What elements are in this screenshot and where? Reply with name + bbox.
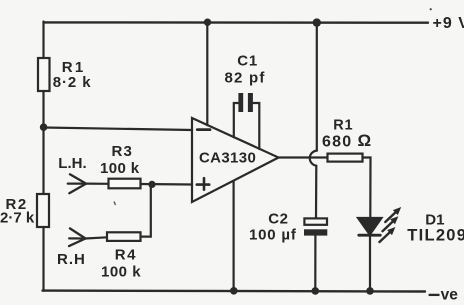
svg-text:C1: C1 <box>237 53 258 70</box>
capacitor C2 bottom plate <box>304 229 327 235</box>
label 2.7k value <box>0 210 35 227</box>
node: bottom rail junction at LED <box>366 287 374 295</box>
svg-text:ve: ve <box>441 287 459 304</box>
label C1 value 82pf <box>225 69 266 86</box>
label TIL209 <box>407 227 464 245</box>
capacitor C2 top plate <box>304 218 327 224</box>
wire: R4 right lead up to junction <box>141 185 151 237</box>
label C1 <box>237 53 258 70</box>
svg-text:8·2 k: 8·2 k <box>53 74 92 91</box>
input arrow L.H. <box>68 174 86 193</box>
LED light arrow 3 <box>380 227 396 242</box>
svg-text:CA3130: CA3130 <box>199 150 256 167</box>
svg-text:2·7 k: 2·7 k <box>0 210 35 227</box>
label L.H. input <box>58 155 86 172</box>
node: inverting-input junction on left branch <box>40 123 48 131</box>
resistor R2 2.7k body <box>37 194 49 227</box>
op-amp non-inverting input plus symbol <box>197 178 209 189</box>
wire: +9V top rail <box>44 21 429 24</box>
label R4 <box>115 247 137 264</box>
wire: decoupling branch from top rail down to hop <box>316 23 318 151</box>
wire: hop to C2 top plate <box>315 166 317 219</box>
wire: R2 bottom to bottom rail <box>42 227 44 291</box>
label R1 680 <box>333 118 353 134</box>
label R4 value 100k <box>101 263 141 280</box>
svg-text:+9 V: +9 V <box>433 15 464 32</box>
label D1 <box>425 212 444 229</box>
svg-text:100 k: 100 k <box>100 160 140 177</box>
label op-amp CA3130 <box>199 150 256 167</box>
svg-text:100 k: 100 k <box>101 263 141 280</box>
wire: R.H arrow to R4 <box>86 237 108 238</box>
label C2 value 100uf <box>249 226 297 243</box>
wire: R1 bottom to R2 top <box>42 91 44 195</box>
label 8.2k value <box>53 74 92 91</box>
capacitor C1 plates <box>238 93 253 112</box>
svg-text:TIL209: TIL209 <box>407 227 464 245</box>
svg-text:Ω: Ω <box>358 131 372 150</box>
svg-text:R3: R3 <box>112 143 134 160</box>
label R1 <box>62 59 86 76</box>
node: bottom rail junction at V- pin <box>230 287 238 295</box>
wire: V- pin from op-amp bottom edge to bottom rail <box>233 182 235 291</box>
resistor R1 680 ohm body <box>328 154 363 162</box>
label C2 <box>268 211 288 228</box>
node: bottom rail junction at C2 <box>312 287 320 295</box>
node: top rail junction at V+ pin <box>204 19 211 26</box>
node: top rail junction at decoupling branch <box>313 18 321 26</box>
label R3 <box>112 143 134 160</box>
LED light arrow 2 <box>383 216 399 231</box>
wire: LED cathode to bottom rail <box>369 236 371 291</box>
op-amp inverting input minus symbol <box>197 128 210 131</box>
speck artifact top right <box>430 8 432 10</box>
capacitor C1 right lead <box>253 103 259 149</box>
resistor R4 100k body <box>107 232 141 241</box>
wire: inverting input wire to op-amp <box>44 128 193 131</box>
wire: -ve bottom rail <box>43 289 426 292</box>
svg-text:C2: C2 <box>268 211 288 228</box>
resistor R1 8.2k body <box>38 58 50 91</box>
wire: V+ pin from top rail to op-amp top edge <box>206 23 208 126</box>
svg-text:L.H.: L.H. <box>58 155 86 172</box>
LED light arrow 1 <box>385 207 401 222</box>
input arrow R.H <box>69 228 86 246</box>
wire: R3 to op-amp non-inverting input <box>141 183 193 186</box>
capacitor C1 left lead <box>234 103 239 137</box>
label R.H input <box>57 251 86 268</box>
svg-text:R.H: R.H <box>57 251 86 268</box>
wire: L.H. arrow to R3 <box>86 183 108 185</box>
op-amp U1 CA3130 triangle <box>192 118 279 202</box>
wire: C2 to bottom rail <box>314 236 316 291</box>
resistor R3 100k body <box>109 179 141 189</box>
svg-text:680: 680 <box>322 134 352 151</box>
label R2 <box>6 196 28 213</box>
svg-text:100 µf: 100 µf <box>249 226 297 243</box>
label 680 ohm value <box>322 131 371 151</box>
label +9V supply <box>433 15 464 32</box>
wire: R1 680 right lead down to LED anode <box>363 158 371 219</box>
label -ve supply <box>429 287 459 304</box>
node: junction of R3, R4 and + input <box>148 181 155 188</box>
svg-text:R1: R1 <box>333 118 353 134</box>
svg-text:82 pf: 82 pf <box>225 69 266 86</box>
wire: hop (crossover bridge) over output wire <box>310 151 317 166</box>
LED D1 cathode bar <box>359 234 381 237</box>
speck artifact below R3 <box>114 202 116 206</box>
svg-text:R4: R4 <box>115 247 137 264</box>
wire: op-amp output to R1 680 <box>279 156 328 158</box>
LED D1 anode triangle <box>358 218 382 235</box>
wire: left vertical branch (top rail to R1) <box>42 22 44 59</box>
label R3 value 100k <box>100 160 140 177</box>
